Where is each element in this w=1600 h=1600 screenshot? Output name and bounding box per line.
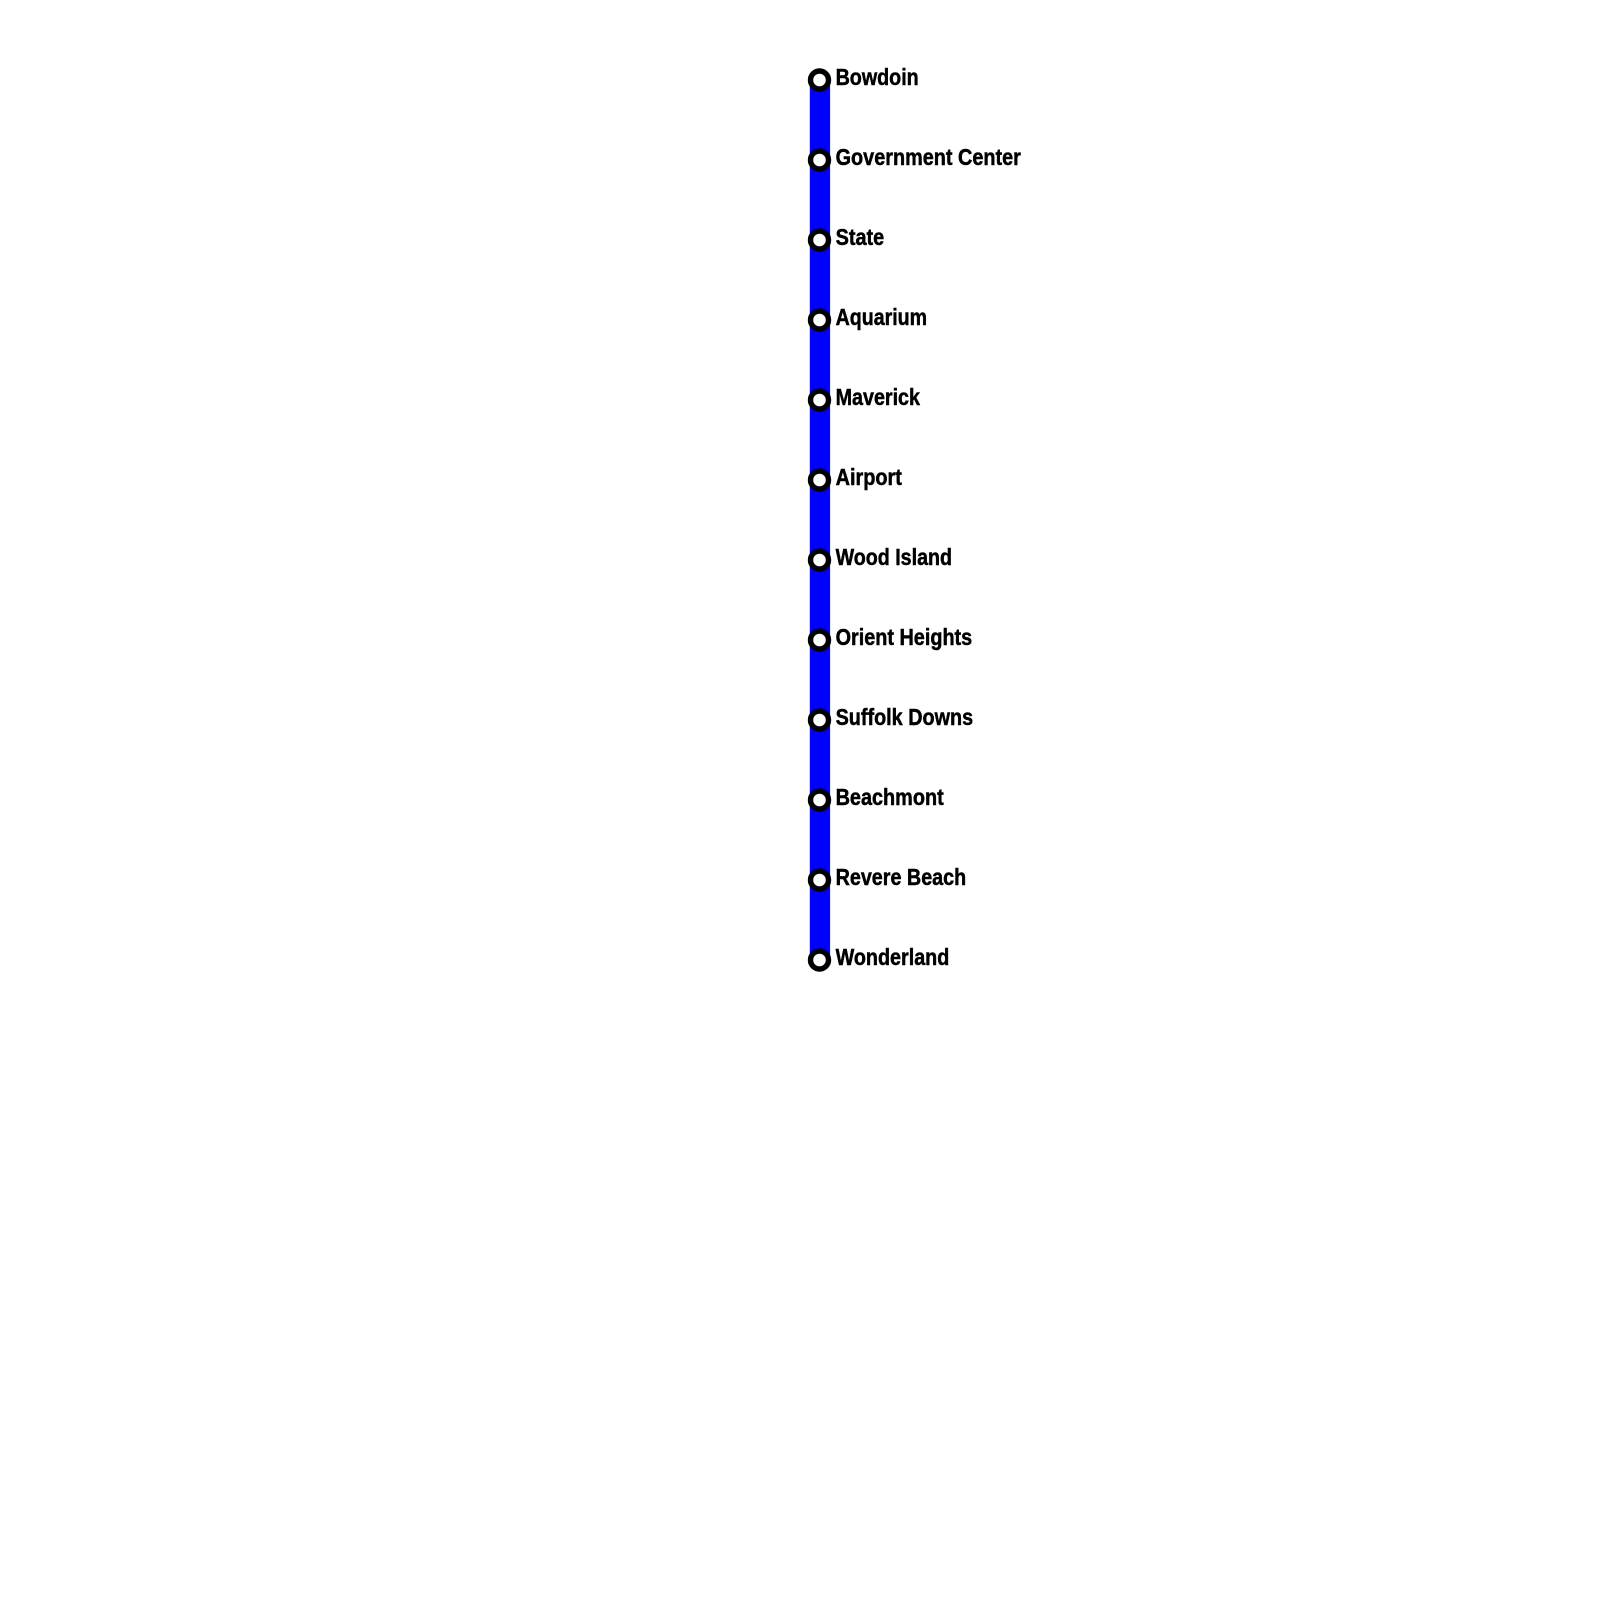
svg-text:Airport: Airport xyxy=(836,464,902,490)
svg-text:Suffolk Downs: Suffolk Downs xyxy=(836,704,974,730)
svg-text:Beachmont: Beachmont xyxy=(836,784,944,810)
svg-text:Maverick: Maverick xyxy=(836,384,921,410)
svg-text:Wonderland: Wonderland xyxy=(836,944,950,970)
svg-text:Orient Heights: Orient Heights xyxy=(836,624,973,650)
svg-text:Revere Beach: Revere Beach xyxy=(836,864,967,890)
svg-text:Bowdoin: Bowdoin xyxy=(836,64,919,90)
svg-text:Aquarium: Aquarium xyxy=(836,304,928,330)
svg-text:State: State xyxy=(836,224,885,250)
svg-text:Wood Island: Wood Island xyxy=(836,544,952,570)
svg-text:Government Center: Government Center xyxy=(836,144,1021,170)
